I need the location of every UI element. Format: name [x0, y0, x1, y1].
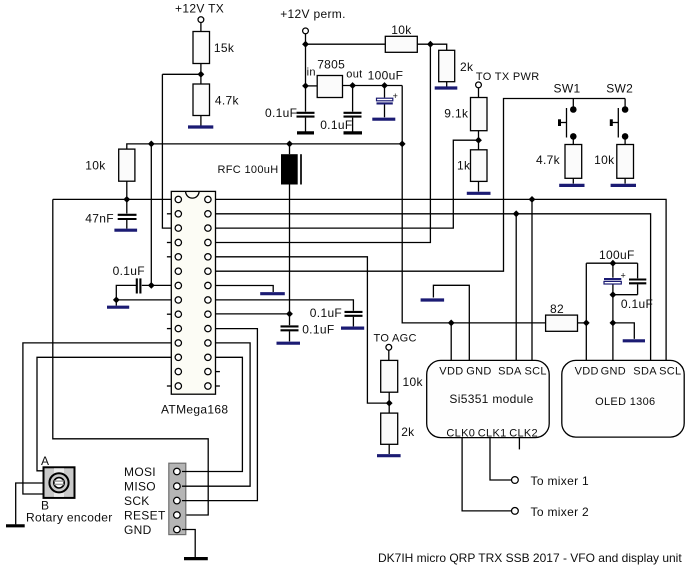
wire VCC branch vertical to pin7	[150, 144, 152, 286]
wire OLED VDD vertical	[585, 263, 587, 360]
node AGC divider junction	[386, 400, 393, 407]
svg-text:SCL: SCL	[659, 365, 681, 377]
svg-text:VDD: VDD	[575, 365, 599, 377]
node 7805 in junction	[302, 83, 309, 90]
wire pin20 AVCC row	[216, 313, 290, 315]
resistor R 82	[546, 302, 578, 331]
wire AVCC cap to ground	[289, 331, 291, 341]
svg-text:0.1uF: 0.1uF	[320, 118, 352, 132]
node TO TX PWR terminal	[476, 82, 482, 88]
connector ISP header strip	[169, 463, 186, 534]
svg-text:7805: 7805	[317, 58, 345, 72]
svg-text:CLK1: CLK1	[478, 428, 507, 440]
node encoder label B	[41, 498, 49, 512]
node +12V TX label	[175, 2, 224, 16]
svg-text:SW2: SW2	[606, 82, 633, 96]
svg-text:GND: GND	[466, 365, 491, 377]
wire 82 to OLED VDD junction	[578, 322, 587, 324]
node to mixer 1 terminal	[512, 474, 590, 488]
wire reset net route to ISP	[53, 199, 208, 515]
node label RESET	[124, 508, 166, 522]
wire 0.1uF output cap to ground	[352, 118, 354, 132]
node OLED GND junction	[610, 320, 617, 327]
ground at AREF cap	[341, 327, 364, 330]
resistor R 2k AGC	[381, 413, 415, 444]
svg-text:out: out	[346, 69, 362, 81]
svg-text:10k: 10k	[391, 23, 412, 37]
svg-text:RESET: RESET	[124, 508, 166, 522]
wire AGC terminal to 10k	[388, 350, 390, 360]
capacitor C 0.1uF at OLED	[621, 263, 653, 311]
ground at ISP header	[184, 557, 208, 560]
svg-text:CLK0: CLK0	[446, 428, 475, 440]
wire 0.1uF bottom to GND net	[613, 294, 638, 296]
wire reset row to IC pin1	[53, 198, 172, 200]
switch SW1	[558, 106, 577, 140]
node pin8 ground junction	[113, 297, 120, 304]
wire RFC top stub	[289, 144, 291, 154]
wire 10k SW2 to ground	[624, 178, 626, 183]
capacitor C 0.1uF at 7805 input	[265, 106, 315, 120]
wire RFC bottom to AVCC junction	[289, 185, 291, 314]
node 100uF junction	[381, 82, 388, 89]
wire 2k AGC to ground	[388, 444, 390, 454]
wire 7805 out rail	[343, 85, 403, 87]
wire OLED GND vertical	[612, 295, 614, 361]
svg-text:+12V perm.: +12V perm.	[280, 7, 346, 21]
wire divider vertical to IC pin3	[162, 74, 171, 228]
node label SCK	[124, 494, 150, 508]
wire Si5351 VDD drop	[450, 323, 452, 361]
svg-text:SCL: SCL	[525, 365, 547, 377]
svg-text:CLK2: CLK2	[509, 428, 538, 440]
svg-text:To mixer 2: To mixer 2	[531, 505, 590, 519]
svg-text:47nF: 47nF	[85, 212, 114, 226]
svg-text:SW1: SW1	[554, 82, 581, 96]
node 100uF bottom junction	[610, 291, 617, 298]
node SW1 label	[554, 82, 581, 96]
node label GND	[124, 523, 152, 537]
wire pin26 to TX PWR divider tap	[216, 140, 479, 228]
wire +5V horizontal rail	[127, 144, 402, 149]
node SDA branch junction	[513, 210, 520, 217]
wire SW1 to 4.7k	[572, 136, 574, 144]
node divider junction	[198, 71, 205, 78]
svg-text:100uF: 100uF	[599, 248, 635, 262]
resistor R 10k battery sense	[385, 23, 417, 52]
resistor R 10k reset pullup	[85, 149, 135, 181]
wire 2k to ground	[446, 82, 448, 87]
node VCC pin7 junction	[148, 282, 155, 289]
svg-text:GND: GND	[601, 365, 626, 377]
resistor R 4.7k at SW1	[536, 145, 582, 179]
wire out junction to 0.1uF cap	[352, 86, 354, 112]
svg-text:SDA: SDA	[633, 365, 657, 377]
wire SW2 drop	[624, 99, 626, 110]
wire CLK0 to mixer 2	[462, 438, 511, 511]
regulator U 7805	[307, 58, 363, 98]
capacitor C 0.1uF VCC decoupling	[113, 264, 145, 294]
node SCL branch junction	[529, 196, 536, 203]
IC pin stubs unconnected	[167, 214, 220, 386]
resistor R 4.7k	[193, 84, 240, 116]
node 7805 out junction	[349, 82, 356, 89]
svg-text:DK7IH micro QRP TRX SSB 2017 -: DK7IH micro QRP TRX SSB 2017 - VFO and d…	[378, 551, 682, 565]
node OLED VDD junction	[583, 320, 590, 327]
node label MISO	[124, 480, 156, 494]
wire AREF cap to ground	[352, 317, 354, 327]
capacitor C 100uF electrolytic at OLED	[604, 263, 626, 295]
resistor R 10k at SW2	[594, 145, 633, 179]
node Si5351 VDD junction	[448, 320, 455, 327]
wire pin22 to ground	[216, 286, 274, 293]
resistor R 15k	[193, 32, 235, 64]
node TO AGC label	[374, 332, 417, 344]
wire MISO pin18 to ISP	[182, 343, 250, 486]
node +5V rail to VCC branch junction	[148, 141, 155, 148]
svg-text:+: +	[621, 271, 627, 281]
svg-text:100uF: 100uF	[368, 68, 404, 82]
ground below output cap	[344, 131, 363, 134]
ground at pin22	[260, 292, 285, 295]
capacitor C 0.1uF AREF	[310, 306, 363, 320]
rotary encoder body	[44, 467, 75, 498]
wire CLK2 stub	[518, 438, 520, 450]
wire 10k pullup bottom stub	[126, 181, 128, 199]
ground below 100uF	[372, 118, 395, 121]
ground at rotary encoder	[6, 524, 25, 527]
wire 10k to 2k top	[417, 44, 446, 50]
wire SCL row pin28	[216, 199, 667, 360]
node +12V perm. label	[280, 7, 346, 21]
wire reset junction to 47nF	[126, 199, 128, 213]
svg-text:Rotary encoder: Rotary encoder	[26, 510, 113, 524]
svg-text:1k: 1k	[457, 159, 471, 173]
svg-text:0.1uF: 0.1uF	[621, 297, 653, 311]
node 10k-2k sense tap junction	[427, 41, 434, 48]
IC right pin circles	[205, 196, 211, 389]
svg-text:MISO: MISO	[124, 480, 156, 494]
module U OLED 1306	[562, 360, 684, 437]
IC U ATMega168 body	[161, 191, 228, 416]
node SW2 label	[606, 82, 633, 96]
wire SCK pin19 to ISP	[182, 329, 257, 501]
ground below 2k	[435, 86, 458, 89]
svg-text:in: in	[307, 66, 316, 78]
IC left pin circles	[175, 196, 181, 389]
ground at AVCC cap	[277, 342, 301, 345]
node +12V perm terminal	[303, 28, 309, 34]
svg-text:Si5351 module: Si5351 module	[449, 392, 533, 406]
svg-text:SDA: SDA	[498, 365, 522, 377]
wire 7805 in to 0.1uF cap	[305, 86, 307, 112]
svg-text:2k: 2k	[460, 60, 474, 74]
svg-text:2k: 2k	[401, 425, 415, 439]
wire pin21 AREF to cap	[216, 300, 354, 311]
wire 0.1uF input cap to ground	[305, 118, 307, 132]
node 100uF label	[599, 248, 635, 262]
capacitor C 0.1uF AVCC	[281, 322, 335, 336]
node +12V perm junction	[302, 41, 309, 48]
inductor RFC 100uH	[218, 154, 302, 184]
wire 7805 in stub	[306, 85, 318, 87]
wire SW2 to 10k	[624, 136, 626, 144]
capacitor C 0.1uF at 7805 output	[320, 113, 361, 132]
wire SCL branch to Si5351	[531, 199, 533, 360]
capacitor C 47nF	[85, 212, 136, 226]
wire 4.7k SW1 to ground	[572, 178, 574, 183]
ground at OLED	[623, 339, 645, 342]
svg-text:TO TX PWR: TO TX PWR	[476, 71, 540, 83]
ground below SW2 resistor	[611, 184, 636, 187]
node AVCC junction	[286, 311, 293, 318]
wire pin8 GND stub	[116, 299, 171, 301]
wire pin12 to encoder A	[37, 357, 171, 471]
ground below SW1 resistor	[559, 184, 584, 187]
wire decoupling top rail	[586, 262, 637, 264]
resistor R 2k sense	[439, 50, 474, 81]
wire encoder common to ground	[16, 483, 44, 524]
svg-text:10k: 10k	[403, 375, 424, 389]
module U Si5351	[427, 360, 550, 439]
node TO AGC terminal	[386, 344, 392, 350]
ground below 1k	[467, 192, 491, 195]
node to mixer 2 terminal	[512, 505, 590, 519]
wire VCC cap to ground corner	[116, 285, 136, 305]
resistor R 10k AGC	[381, 360, 424, 392]
ground below input cap	[297, 131, 314, 134]
connector ISP pin circles	[174, 468, 181, 533]
node schematic title	[378, 551, 682, 565]
wire SW1 drop	[572, 99, 574, 110]
svg-text:A: A	[41, 454, 49, 468]
wire SDA branch to Si5351	[515, 214, 517, 361]
svg-text:RFC 100uH: RFC 100uH	[218, 164, 279, 176]
capacitor C 100uF electrolytic at regulator	[368, 68, 404, 117]
wire terminal to 9.1k	[478, 88, 480, 98]
wire SDA row pin27	[216, 214, 651, 361]
svg-text:0.1uF: 0.1uF	[302, 322, 334, 336]
resistor R 9.1k	[444, 98, 487, 131]
wire MOSI pin17 to ISP	[182, 357, 242, 471]
svg-text:82: 82	[550, 302, 564, 316]
node TO TX PWR label	[476, 71, 540, 83]
wire CLK1 to mixer 1	[490, 438, 512, 480]
wire 1k to ground	[478, 181, 480, 191]
svg-text:ATMega168: ATMega168	[161, 402, 228, 416]
ground at Si5351 GND	[421, 298, 445, 301]
svg-text:0.1uF: 0.1uF	[310, 306, 342, 320]
node TX PWR divider junction	[475, 137, 482, 144]
svg-text:VDD: VDD	[439, 365, 463, 377]
wire AVCC junction to cap	[289, 314, 291, 325]
svg-text:To mixer 1: To mixer 1	[531, 474, 590, 488]
svg-text:10k: 10k	[594, 153, 615, 167]
wire +12V perm to 10k sense resistor	[306, 43, 386, 45]
wire sense tap to IC pin25	[216, 44, 431, 242]
node +5V rail corner junction	[399, 141, 406, 148]
node RFC top junction	[286, 141, 293, 148]
svg-text:10k: 10k	[85, 159, 106, 173]
svg-text:MOSI: MOSI	[124, 465, 156, 479]
svg-text:OLED 1306: OLED 1306	[595, 396, 655, 408]
svg-text:15k: 15k	[214, 41, 235, 55]
switch SW2	[610, 106, 629, 140]
ground below 4.7k	[188, 125, 213, 128]
node +12V TX terminal	[198, 17, 204, 23]
wire pin23 to switches rail	[216, 99, 626, 272]
wire divider junction to vertical	[162, 73, 201, 75]
wire 4.7k to ground	[200, 116, 202, 126]
node 100uF top junction	[610, 260, 617, 267]
wire 9.1k to 1k	[478, 131, 480, 150]
ground below 47nF	[114, 229, 137, 232]
svg-text:GND: GND	[124, 523, 152, 537]
wire +12V TX terminal to R 15k	[200, 23, 202, 32]
wire 15k bottom to 4.7k top	[200, 64, 202, 85]
svg-text:4.7k: 4.7k	[536, 153, 561, 167]
node encoder label A	[41, 454, 49, 468]
wire ISP GND to ground	[182, 530, 195, 558]
svg-text:TO AGC: TO AGC	[374, 332, 417, 344]
wire Si5351 GND to ground	[433, 285, 469, 360]
node label MOSI	[124, 465, 156, 479]
wire pin11 to encoder B	[23, 343, 171, 494]
resistor R 1k	[457, 150, 487, 182]
ground at pin8	[107, 306, 129, 309]
wire pin7 VCC stub	[142, 284, 172, 286]
wire pin24 to AGC divider tap	[216, 257, 390, 403]
svg-text:+: +	[393, 91, 399, 101]
svg-text:0.1uF: 0.1uF	[265, 106, 297, 120]
node reset junction	[123, 196, 130, 203]
wire +12V perm vertical to 7805 in	[305, 34, 307, 86]
wire GND net to ground bar	[613, 323, 634, 339]
wire +5V rail down and to VDD line	[402, 86, 545, 323]
svg-text:9.1k: 9.1k	[444, 107, 469, 121]
wire 47nF to ground	[126, 220, 128, 229]
svg-text:SCK: SCK	[124, 494, 150, 508]
ground below AGC divider	[377, 454, 401, 457]
svg-text:0.1uF: 0.1uF	[113, 264, 145, 278]
wire AGC divider middle	[388, 392, 390, 413]
svg-text:+12V TX: +12V TX	[175, 2, 224, 16]
node rotary encoder caption	[26, 510, 113, 524]
svg-text:4.7k: 4.7k	[215, 93, 240, 107]
